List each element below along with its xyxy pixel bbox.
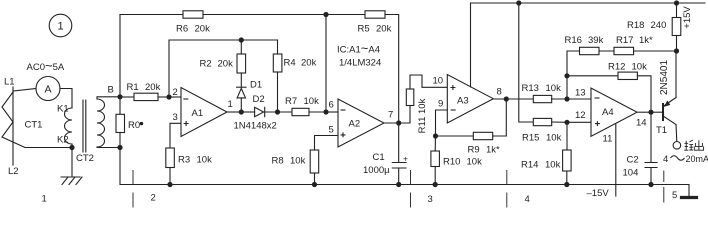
wire pin12 node to A4 pin 12: [567, 121, 591, 123]
resistor R18: [672, 18, 681, 36]
op-amp A2: [338, 99, 384, 147]
wire A4 output to T1 base node: [637, 111, 651, 113]
svg-text:20k: 20k: [376, 24, 392, 35]
wire C2 bottom to rail: [650, 168, 652, 185]
node C1/rail junction: [396, 182, 401, 187]
svg-text:5: 5: [329, 125, 334, 136]
wire D2 cathode to R7: [265, 111, 292, 113]
svg-text:R9: R9: [468, 145, 480, 156]
svg-text:+15V: +15V: [682, 6, 693, 29]
transformer CT2 core lines: [83, 100, 86, 152]
wire base node to T1: [651, 111, 663, 113]
svg-text:T1: T1: [656, 125, 667, 136]
svg-text:20k: 20k: [218, 59, 234, 70]
svg-text:L1: L1: [4, 77, 15, 88]
svg-text:R7: R7: [285, 96, 297, 107]
wire R18 bottom to node: [676, 36, 678, 52]
svg-text:3: 3: [428, 194, 433, 205]
node R17/R18/emitter junction: [674, 48, 679, 53]
wire R4 bottom to node: [277, 72, 279, 112]
svg-text:A2: A2: [349, 119, 361, 130]
wire K2 lead: [71, 144, 73, 148]
op-amp A3: [447, 75, 493, 124]
node R9/R10 junction: [433, 133, 438, 138]
wire R12 row: [567, 75, 618, 77]
svg-text:R15: R15: [522, 133, 539, 144]
wire R17 to R18/emitter node: [634, 50, 677, 52]
wire R10 top: [434, 136, 436, 151]
resistor R8: [310, 150, 319, 173]
node B junction: [117, 94, 122, 99]
svg-text:7: 7: [388, 110, 393, 121]
wire A1 out to D2: [241, 111, 254, 113]
node A2 output junction: [396, 120, 401, 125]
line terminal L1 / CT1 primary conductor: [12, 87, 14, 165]
svg-text:9: 9: [438, 99, 443, 110]
capacitor C2: [650, 112, 652, 162]
svg-text:10k: 10k: [197, 155, 213, 166]
svg-text:11: 11: [603, 134, 613, 145]
terminal output circle: [673, 142, 681, 150]
svg-text:R14: R14: [521, 160, 538, 171]
node A3 output junction: [504, 96, 509, 101]
node R2 top junction: [239, 37, 244, 42]
wire R18 top lead: [676, 3, 678, 18]
svg-text:39k: 39k: [588, 35, 604, 46]
svg-text:R10: R10: [443, 157, 460, 168]
svg-text:1000µ: 1000µ: [363, 165, 390, 176]
svg-text:R6: R6: [176, 24, 188, 35]
wire node B down to R0: [119, 97, 121, 115]
winding CT2 secondary (4 arcs): [97, 99, 105, 147]
node R3/rail junction: [167, 182, 172, 187]
wire bottom ground rail: [120, 184, 689, 186]
wire +15V drop to A3 V+ (pin 4): [470, 3, 472, 87]
node R0/CT2 bottom junction: [117, 145, 122, 150]
wire A4 pin 11 to -15V: [615, 124, 617, 196]
wire R9 right up to A3 output: [493, 99, 507, 136]
wire node B to R1: [120, 96, 134, 98]
svg-text:2: 2: [151, 193, 156, 204]
resistor R16: [580, 47, 600, 54]
wire R16 to R17: [599, 50, 614, 52]
wire top rail (left): [120, 14, 183, 16]
wire A2 output: [384, 122, 399, 124]
section separator 2/3: [410, 171, 412, 208]
node R8/rail junction: [312, 182, 317, 187]
winding K1-K2 (CT2 primary, 3 arcs): [65, 108, 73, 144]
svg-text:10k: 10k: [290, 156, 306, 167]
wire R12 right down to A4 output node: [637, 76, 651, 112]
wire R11 top to A3 pin 10: [410, 75, 447, 89]
node A4 output junction: [648, 110, 653, 115]
node A4 pin12 junction: [564, 120, 569, 125]
svg-text:R16: R16: [565, 35, 582, 46]
svg-text:1: 1: [42, 194, 47, 205]
wire R2 top lead: [240, 40, 242, 54]
svg-text:A3: A3: [457, 96, 469, 107]
section separator 3/4: [506, 171, 508, 208]
svg-text:R13: R13: [522, 83, 539, 94]
svg-text:CT2: CT2: [76, 153, 94, 164]
label shuchu (output) glyphs: [684, 140, 703, 150]
winding CT1 (zigzag secondary): [2, 92, 25, 148]
svg-text:13: 13: [575, 88, 586, 99]
wire A2 pin5 to R8: [315, 136, 339, 151]
wire R10 bottom to rail: [434, 167, 436, 185]
svg-text:2: 2: [173, 87, 178, 98]
svg-text:A4: A4: [602, 107, 614, 118]
svg-text:240: 240: [651, 20, 667, 31]
circle marker 1: [49, 14, 72, 37]
wire A3 pin 9 down to R9/R10 node: [436, 110, 448, 136]
op-amp A1: [181, 88, 227, 137]
svg-text:10k: 10k: [546, 133, 562, 144]
wire CT1 top to ammeter: [13, 89, 36, 92]
svg-text:R17: R17: [616, 35, 633, 46]
transistor T1 (2N5401 PNP): [662, 104, 664, 120]
svg-text:20mA: 20mA: [686, 154, 708, 164]
wire CT2 secondary bottom to R0 bottom node: [97, 146, 120, 149]
svg-text:R1: R1: [127, 82, 139, 93]
wire R1 to pin2 node: [158, 96, 169, 98]
svg-text:20k: 20k: [145, 82, 161, 93]
svg-text:C2: C2: [627, 155, 639, 166]
resistor R3: [166, 148, 175, 168]
ground (earth) under K2: [61, 177, 82, 185]
node R12 branch junction: [564, 73, 569, 78]
resistor R14: [563, 150, 572, 171]
svg-text:R0: R0: [128, 120, 140, 131]
svg-text:–15V: –15V: [587, 188, 610, 199]
svg-text:20k: 20k: [301, 58, 317, 69]
svg-text:R8: R8: [272, 156, 284, 167]
resistor R2: [237, 54, 246, 73]
wire node to R9: [436, 135, 474, 137]
node top rail R5/R6 junction: [323, 12, 328, 17]
wire R3 bottom to rail: [169, 168, 171, 185]
svg-text:10k: 10k: [467, 157, 483, 168]
svg-text:1: 1: [58, 21, 64, 33]
wire rail to right ground: [688, 185, 690, 197]
svg-text:R2: R2: [200, 59, 212, 70]
svg-text:1k*: 1k*: [486, 145, 500, 156]
wire +15V drop to R15: [519, 3, 534, 122]
svg-text:6: 6: [329, 100, 334, 111]
wire A3 output to R13: [493, 98, 533, 100]
resistor R17: [614, 47, 634, 54]
op-amp A4: [591, 88, 637, 136]
wire D1 anode to A1 output node: [240, 98, 242, 112]
svg-text:B: B: [108, 85, 114, 96]
svg-text:10k: 10k: [304, 96, 320, 107]
resistor R12: [618, 72, 637, 79]
wire K2 to ground: [71, 148, 73, 177]
wire R0 bottom: [119, 133, 121, 148]
wire feedback rail A1 (pin2 up and across to R2/R4): [169, 40, 278, 97]
svg-text:20k: 20k: [195, 24, 211, 35]
resistor R6: [183, 11, 203, 18]
svg-text:A: A: [45, 84, 52, 96]
wire A1 pin 3 to R3: [170, 123, 181, 148]
wire R7 to A2 pin6 node: [309, 111, 326, 113]
wire down to bottom rail: [119, 148, 121, 185]
resistor R5: [365, 11, 385, 18]
svg-text:14: 14: [636, 118, 647, 129]
wire +15V rail: [471, 2, 706, 4]
op-amp A4 signs and name: [595, 97, 600, 99]
op-amp A3 signs and name: [450, 85, 455, 90]
svg-text:C1: C1: [373, 152, 385, 163]
wire R8 bottom to rail: [314, 173, 316, 185]
node A2 pin6 junction: [323, 109, 328, 114]
node A1 output junction: [239, 109, 244, 114]
resistor R10: [431, 151, 440, 167]
svg-text:10k: 10k: [546, 83, 562, 94]
svg-text:3: 3: [173, 112, 178, 123]
wire pin13 node up to R16 and R12 branch: [567, 51, 580, 99]
svg-text:+: +: [403, 154, 408, 164]
svg-text:R4: R4: [284, 58, 296, 69]
svg-text:K1: K1: [57, 104, 69, 115]
wire R2 bottom to D1: [240, 73, 242, 87]
wire left vertical: top rail down to node B: [119, 15, 121, 97]
wire CT2 secondary top to node B: [97, 97, 120, 99]
wire R15 to pin12 node: [552, 121, 567, 123]
wire pin12 node down to R14: [566, 122, 568, 150]
resistor R15: [533, 118, 551, 125]
section separator 1/2: [132, 171, 134, 208]
svg-text:4: 4: [663, 154, 668, 165]
capacitor C1 plates: [392, 163, 406, 169]
section separator 4/5: [663, 171, 665, 202]
wire pin13 node to A4 pin 13: [567, 98, 591, 100]
wire A2 pin6: [326, 111, 338, 113]
resistor R13: [533, 95, 551, 102]
svg-text:CT1: CT1: [25, 120, 43, 131]
wire R14 bottom to rail: [566, 171, 568, 185]
svg-text:104: 104: [623, 168, 639, 179]
wire A1 output: [227, 111, 241, 113]
svg-text:4: 4: [525, 194, 530, 205]
svg-text:10: 10: [433, 76, 444, 87]
svg-text:R5: R5: [358, 24, 370, 35]
wire T1 collector down to output terminal: [675, 125, 678, 142]
wire R13 to pin13 node: [552, 98, 567, 100]
svg-text:1k*: 1k*: [639, 35, 653, 46]
node A1 pin2 junction: [166, 94, 171, 99]
diode D1: [237, 86, 246, 88]
wire top rail right end down to A2 output node and C1: [385, 15, 399, 163]
resistor R9: [473, 132, 492, 139]
node D2/R4/R7 junction: [275, 109, 280, 114]
ammeter A circle: [36, 77, 60, 101]
svg-text:2N5401: 2N5401: [659, 60, 670, 95]
wire T1 emitter up to +15V node: [675, 51, 677, 98]
svg-text:R11 10k: R11 10k: [417, 98, 428, 133]
resistor R7: [292, 108, 309, 115]
node K2 junction: [69, 145, 74, 150]
svg-text:A1: A1: [192, 108, 204, 119]
resistor R4: [273, 54, 282, 72]
wire A2 output node to R11: [399, 106, 410, 124]
wire C1 bottom to rail: [398, 168, 400, 185]
node A4 pin13 junction: [564, 96, 569, 101]
svg-text:D1: D1: [250, 80, 262, 91]
wire pin2 node to A1 pin 2: [169, 96, 181, 98]
svg-text:1N4148x2: 1N4148x2: [234, 121, 277, 132]
svg-text:10k: 10k: [545, 160, 561, 171]
svg-text:D2: D2: [253, 94, 265, 105]
svg-text:R3: R3: [178, 155, 190, 166]
svg-text:R12: R12: [608, 62, 625, 73]
op-amp A1 signs and name: [183, 98, 188, 100]
diode D2: [255, 107, 264, 116]
svg-text:5: 5: [672, 190, 677, 201]
node C2/rail junction: [648, 182, 653, 187]
svg-text:1: 1: [228, 99, 233, 110]
svg-text:K2: K2: [57, 135, 69, 146]
wire ammeter to K1: [60, 89, 72, 109]
svg-text:8: 8: [497, 87, 502, 98]
wire top rail (middle): [203, 14, 365, 16]
svg-text:R18: R18: [627, 20, 644, 31]
resistor R0*: [116, 114, 125, 132]
node R10/rail junction: [433, 182, 438, 187]
svg-text:L2: L2: [8, 166, 19, 177]
wire pin6 node up to top rail: [325, 15, 327, 113]
wire CT1 zigzag bottom to K2 node: [25, 147, 72, 149]
op-amp A2 signs and name: [341, 109, 346, 111]
wire R4 top lead: [277, 40, 279, 54]
resistor R11: [406, 89, 414, 106]
node +15V/R18 junction: [674, 0, 679, 5]
svg-text:1/4LM324: 1/4LM324: [339, 58, 381, 69]
ground (right, bar): [682, 196, 697, 199]
node R14/rail junction: [564, 182, 569, 187]
svg-text:10k: 10k: [632, 62, 648, 73]
resistor R1: [134, 93, 158, 100]
node +15V/R15 feed junction: [516, 0, 521, 5]
svg-text:12: 12: [575, 110, 586, 121]
